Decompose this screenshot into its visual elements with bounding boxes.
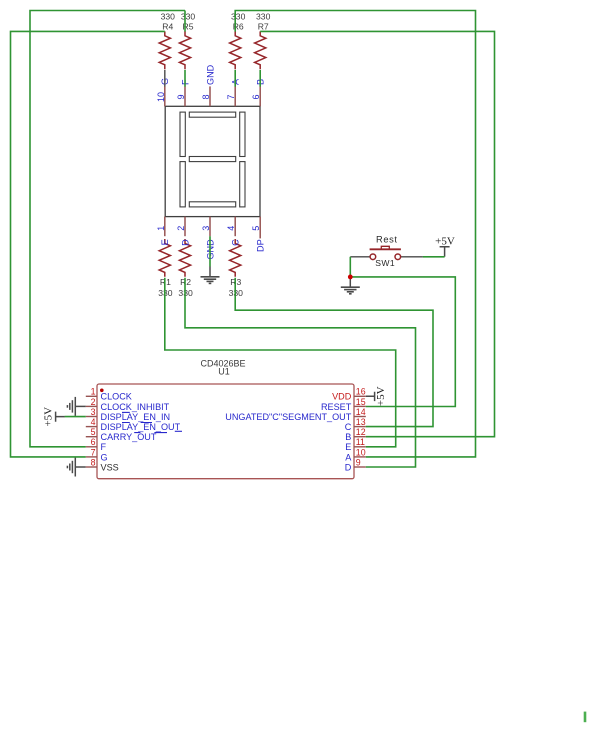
wire R5 to display pin 9 — [184, 70, 186, 87]
svg-text:2: 2 — [91, 397, 96, 407]
wire SW1 right to +5V — [423, 256, 445, 258]
svg-text:Rest: Rest — [376, 234, 398, 244]
resistor R7 330 — [255, 11, 271, 69]
svg-text:5: 5 — [91, 427, 96, 437]
svg-text:1: 1 — [91, 387, 96, 397]
7-segment display body — [165, 106, 260, 216]
svg-text:12: 12 — [356, 427, 366, 437]
svg-text:3: 3 — [91, 407, 96, 417]
wire C net (R3 to U1 pin 13) — [235, 278, 433, 427]
wire E net (R1 to U1 pin 11) — [165, 278, 396, 447]
junction (reset net) — [348, 275, 353, 280]
power +5V (U1 pin 16 VDD) — [366, 386, 387, 406]
svg-text:1: 1 — [156, 226, 166, 231]
display pin 6 (B) — [251, 79, 265, 106]
U1 pin 4 (DISPLAY_EN_OUT) — [86, 417, 181, 432]
resistor R3 330 — [229, 239, 244, 298]
svg-text:DISPLAY_EN_OUT: DISPLAY_EN_OUT — [101, 422, 181, 432]
U1 pin 13 (C) — [345, 417, 366, 432]
display pin 4 (C) — [226, 217, 240, 246]
display pin 2 (D) — [176, 217, 190, 246]
wire R6 to display pin 7 — [234, 70, 236, 87]
display pin 1 (E) — [156, 217, 170, 246]
display pin 8 (GND) — [201, 64, 215, 106]
wire F net (R5 top to U1 pin 6) — [30, 11, 185, 447]
svg-text:330: 330 — [161, 11, 176, 21]
U1 pin 14 (UNGATED C SEGMENT_OUT) — [225, 407, 366, 422]
svg-text:5: 5 — [251, 226, 261, 231]
svg-text:E: E — [345, 442, 351, 452]
svg-text:E: E — [160, 239, 170, 245]
segment E (bottom-left) — [180, 162, 185, 207]
svg-text:DISPLAY_EN_IN: DISPLAY_EN_IN — [101, 412, 171, 422]
segment D (bottom) — [189, 202, 235, 207]
svg-text:G: G — [101, 452, 108, 462]
svg-text:6: 6 — [91, 437, 96, 447]
svg-text:4: 4 — [91, 417, 96, 427]
U1 pin 12 (B) — [345, 427, 366, 442]
svg-text:R6: R6 — [233, 22, 244, 32]
segment B (top-right) — [240, 112, 245, 156]
resistor R1 330 — [158, 239, 173, 298]
U1 pin 11 (E) — [345, 437, 366, 452]
svg-text:CARRY_OUT: CARRY_OUT — [101, 432, 157, 442]
svg-text:B: B — [345, 432, 351, 442]
overbars CARRY_OUT — [134, 432, 167, 434]
power +5V (SW1 right) — [435, 235, 455, 256]
ground (U1 pin 2 CLOCK_INHIBIT) — [67, 397, 85, 416]
wire U1 pin 3 to +5V — [65, 416, 86, 418]
U1 pin 9 (D) — [345, 457, 366, 472]
svg-text:VDD: VDD — [332, 392, 352, 402]
svg-text:SW1: SW1 — [375, 258, 395, 268]
segment A (top) — [189, 112, 235, 117]
svg-text:330: 330 — [181, 11, 196, 21]
U1 pin 6 (F) — [86, 437, 107, 452]
wire R7 to display pin 6 — [259, 70, 261, 87]
svg-text:RESET: RESET — [321, 402, 352, 412]
svg-text:CLOCK_INHIBIT: CLOCK_INHIBIT — [101, 402, 170, 412]
resistor R6 330 — [230, 11, 246, 69]
wire D net (R2 to U1 pin 9) — [185, 278, 416, 467]
svg-text:16: 16 — [356, 387, 366, 397]
svg-text:R7: R7 — [258, 22, 269, 32]
resistor R4 330 — [159, 11, 175, 69]
svg-text:D: D — [345, 462, 352, 472]
svg-text:R5: R5 — [183, 22, 194, 32]
svg-text:9: 9 — [356, 457, 361, 467]
svg-text:U1: U1 — [218, 367, 230, 377]
U1 pin 3 (DISPLAY_EN_IN) — [86, 407, 170, 422]
svg-text:GND: GND — [205, 64, 215, 85]
segment F (top-left) — [180, 112, 185, 156]
U1 pin 8 (VSS) — [86, 457, 119, 472]
svg-text:DP: DP — [256, 239, 266, 252]
display pin 3 (GND) — [201, 217, 215, 260]
overbars DISPLAY_EN_OUT — [122, 422, 152, 424]
svg-text:10: 10 — [356, 447, 366, 457]
cursor mark — [584, 712, 587, 723]
svg-text:10: 10 — [156, 92, 166, 102]
svg-text:9: 9 — [176, 94, 186, 99]
svg-text:8: 8 — [201, 94, 211, 99]
wire B net (R7 to U1 pin 12) — [260, 31, 494, 436]
segment C (bottom-right) — [240, 162, 245, 207]
svg-text:D: D — [180, 239, 190, 246]
svg-text:2: 2 — [176, 226, 186, 231]
svg-text:+5V: +5V — [435, 235, 455, 247]
trailing underscore DISPLAY_EN_OUT — [175, 430, 182, 432]
overbar DISPLAY_EN_IN — [122, 411, 130, 413]
U1 pin 15 (RESET) — [321, 397, 366, 412]
ground (U1 pin 8 VSS) — [67, 458, 85, 477]
svg-text:3: 3 — [201, 226, 211, 231]
wire RESET net (junction to U1 pin 15) — [350, 277, 455, 407]
wire display pin 3 to ground — [209, 236, 211, 266]
ground (SW1 / reset net) — [341, 277, 360, 294]
svg-text:11: 11 — [356, 437, 365, 447]
display pin 9 (F) — [176, 79, 190, 106]
svg-text:CLOCK: CLOCK — [101, 392, 132, 402]
svg-text:VSS: VSS — [101, 462, 119, 472]
svg-text:C: C — [345, 422, 352, 432]
power +5V (U1 pin 3) — [42, 407, 65, 427]
svg-text:UNGATED"C"SEGMENT_OUT: UNGATED"C"SEGMENT_OUT — [225, 412, 351, 422]
svg-text:4: 4 — [226, 226, 236, 231]
display pin 7 (A) — [226, 78, 240, 106]
svg-text:330: 330 — [231, 11, 246, 21]
U1 pin 5 (CARRY_OUT) — [86, 427, 157, 442]
display pin 10 (G) — [156, 78, 170, 106]
U1 pin 16 (VDD) — [332, 387, 366, 402]
wire R5 top drop — [184, 11, 186, 32]
wire R4 to display pin 10 — [164, 70, 166, 87]
segment G (middle) — [189, 157, 235, 162]
svg-text:6: 6 — [251, 94, 261, 99]
svg-text:8: 8 — [91, 457, 96, 467]
display pin 5 (DP) — [251, 217, 265, 252]
svg-text:7: 7 — [226, 94, 236, 99]
svg-text:14: 14 — [356, 407, 366, 417]
svg-text:A: A — [345, 452, 352, 462]
wire SW1 left to junction — [349, 257, 351, 277]
U1 pin 1 (CLOCK) — [86, 387, 132, 402]
resistor R2 330 — [178, 239, 193, 298]
ground (display GND) — [201, 267, 220, 284]
svg-text:15: 15 — [356, 397, 366, 407]
svg-text:7: 7 — [91, 447, 96, 457]
svg-text:330: 330 — [256, 11, 271, 21]
U1 pin 2 (CLOCK_INHIBIT) — [86, 397, 170, 412]
svg-text:R4: R4 — [162, 22, 173, 32]
resistor R5 330 — [179, 11, 195, 69]
svg-text:C: C — [231, 239, 241, 246]
wire A net (R6 to U1 pin 10) — [235, 11, 475, 457]
svg-text:+5V: +5V — [375, 386, 387, 406]
U1 pin 7 (G) — [86, 447, 108, 462]
U1 pin 10 (A) — [345, 447, 366, 462]
svg-text:+5V: +5V — [42, 407, 54, 427]
op-amp/IC U1 CD4026BE body — [97, 359, 354, 479]
svg-text:13: 13 — [356, 417, 366, 427]
wire G net (R4 top to U1 pin 7) — [11, 31, 165, 457]
svg-text:F: F — [101, 442, 107, 452]
switch SW1 (Rest push button) — [350, 234, 423, 268]
